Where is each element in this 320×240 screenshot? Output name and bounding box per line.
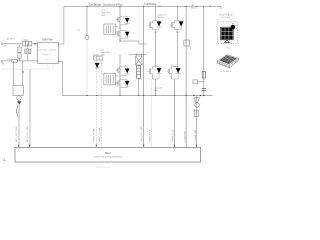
wire Y-cap stubs [18, 44, 20, 61]
wire grid sense to MCU [196, 96, 198, 148]
wire boost branch lower [86, 40, 88, 96]
svg-text:Bank: Bank [158, 17, 163, 19]
inductor L2 [202, 72, 205, 79]
wire GaN leg1 rail [119, 6, 121, 41]
node leg1 bus [155, 95, 156, 96]
wire neutral sense down [29, 69, 31, 147]
node T1 bus [138, 95, 139, 96]
svg-text:50Hz: 50Hz [3, 46, 7, 48]
inductor L1 [85, 35, 89, 39]
svg-text:x2: x2 [190, 40, 192, 42]
svg-text:F1 10A: F1 10A [6, 58, 13, 61]
diode D8 [152, 67, 161, 79]
wire boost branch [86, 6, 88, 35]
node jog start [119, 40, 120, 41]
gate driver U2 [104, 24, 116, 34]
capacitor CY2 [18, 53, 22, 58]
ground [3, 159, 6, 164]
wire T-LB leg2 drop [177, 6, 179, 20]
transistor Q5 [148, 21, 153, 30]
svg-text:VBUS_VOLT_SNS: VBUS_VOLT_SNS [141, 126, 143, 142]
node rail junction D [159, 6, 160, 7]
svg-text:CM choke + X2 caps: CM choke + X2 caps [39, 50, 57, 52]
wire T-LB leg2 mid [175, 30, 178, 67]
transistor Q7 [148, 67, 153, 79]
transistor Q1 [116, 17, 120, 23]
inductor T1 winding [137, 66, 141, 78]
node bus j2 [143, 95, 144, 96]
capacitor CX1 [25, 49, 27, 54]
wire EMI lower output drop [58, 62, 62, 96]
capacitor CX2 [28, 49, 30, 54]
diode D2 [120, 31, 130, 39]
wire fuse to EMI [17, 60, 37, 62]
transistor Q2 [116, 31, 120, 37]
pin arrow p2 [29, 145, 31, 148]
sensor box U4 [194, 110, 199, 117]
svg-text:GaN micro-inverter: GaN micro-inverter [95, 166, 111, 169]
wire rail right end drop [220, 6, 222, 9]
pin arrow p9 [196, 145, 198, 148]
wire EMI upper output riser [58, 6, 64, 44]
wire X-cap branch [27, 44, 29, 61]
svg-text:PV kit: PV kit [226, 47, 231, 50]
terminal AC line L [1, 43, 3, 45]
wire earth dashed [2, 68, 50, 70]
wire transformer top [129, 53, 148, 55]
node diamond joint [16, 96, 22, 101]
wire AC stub [198, 81, 204, 83]
node bus j5 [200, 95, 201, 96]
svg-text:PWM2_B_TLB: PWM2_B_TLB [173, 129, 175, 142]
arrow into EMI [34, 43, 36, 45]
gate driver U3 [104, 73, 116, 85]
svg-text:PV Rooftop kit: PV Rooftop kit [220, 70, 232, 73]
wire C1 pin [190, 46, 192, 50]
wire sense line to MCU x19 [13, 61, 22, 86]
svg-text:AC 230 V: AC 230 V [7, 38, 16, 41]
node transformer a [136, 54, 137, 55]
diode D4 [120, 80, 130, 88]
node leg2 to bus [119, 95, 120, 96]
wire leg2 bottom to MCU [174, 79, 176, 147]
diode D6 [152, 21, 161, 30]
svg-text:MCU: MCU [105, 153, 111, 155]
transformer T1 core [136, 54, 141, 56]
svg-text:GaN Bridge / Synchronous Rect.: GaN Bridge / Synchronous Rect. [89, 4, 124, 7]
pin arrow p7 [174, 145, 176, 148]
wire left sense down [18, 101, 20, 147]
node rail junction C [143, 6, 144, 7]
wire T-LB left rail [143, 6, 145, 147]
current sensor CT1 [195, 103, 200, 108]
wire PWM pair to MCU [96, 60, 101, 147]
node transformer b [141, 54, 142, 55]
wire L to connector [3, 43, 22, 45]
diode D9 [17, 101, 21, 104]
transistor Q4 [116, 80, 120, 86]
transformer TX aux box [13, 86, 24, 96]
wire top DC rail [64, 5, 221, 7]
node bus j1 [96, 95, 97, 96]
svg-text:Solar PV Array: Solar PV Array [219, 13, 232, 16]
svg-text:AC_L_VOLT_SNS: AC_L_VOLT_SNS [15, 126, 18, 142]
svg-text:EMI Filter: EMI Filter [43, 39, 53, 42]
transistor Q3 [116, 67, 120, 73]
EMI filter box U1 [38, 42, 59, 63]
svg-text:T-LB Bridge: T-LB Bridge [144, 3, 157, 6]
solar panel icon [221, 27, 234, 40]
svg-text:V_GRID_SNS: V_GRID_SNS [195, 129, 197, 141]
wire bridge out jog [120, 41, 147, 44]
wire gate sense to MCU [151, 79, 153, 147]
current sensor funnel [194, 98, 199, 103]
PV array dashed box [218, 22, 238, 44]
svg-text:2-stage LC: 2-stage LC [43, 53, 52, 56]
node rail junction G [209, 6, 210, 7]
current transformer arc [17, 106, 19, 118]
node rail junction B [119, 6, 120, 7]
diode D5 [95, 63, 99, 68]
node boost to bus [86, 95, 87, 96]
panel stand [224, 40, 230, 43]
arrow sense down [22, 71, 24, 74]
svg-text:I_GRID_SNS: I_GRID_SNS [184, 130, 186, 142]
connector J2 [94, 56, 103, 60]
MCU box U5 [15, 147, 201, 162]
transistor Q6 [170, 21, 175, 30]
svg-text:GaN: GaN [101, 15, 106, 17]
rooftop PV icon [217, 55, 239, 68]
wire leg1 bottom to bus [154, 79, 156, 96]
svg-text:Y caps: Y caps [44, 59, 50, 61]
node leg2 bus [174, 95, 175, 96]
node bus j6 [203, 95, 204, 96]
svg-text:PWM1_HI_GAN: PWM1_HI_GAN [93, 128, 96, 142]
svg-text:(DC Input): (DC Input) [222, 16, 231, 19]
diode D10 [171, 67, 180, 79]
node rail junction E [186, 6, 187, 7]
wire output filter line [203, 6, 205, 95]
wire capacitor line [185, 6, 187, 147]
fuse F1 [12, 59, 17, 62]
terminal earth [2, 63, 4, 65]
svg-text:GaN: GaN [101, 55, 106, 57]
wire N to fuse [3, 60, 12, 62]
node rail junction A [86, 6, 87, 7]
sun icon [231, 25, 236, 30]
svg-text:DC-DC: DC-DC [191, 7, 198, 9]
wire T-LB leg1 drop [154, 6, 156, 20]
capacitor C1 [184, 40, 189, 46]
pin arrow p1 [18, 145, 20, 148]
diode D3 [120, 67, 130, 76]
capacitor CY1 [18, 47, 22, 52]
node bus j4 [193, 95, 194, 96]
connector J3 [193, 80, 198, 84]
svg-text:PWM2_A_TLB: PWM2_A_TLB [149, 129, 152, 142]
wire GaN leg2 rail [119, 54, 121, 95]
pin arrow p5 [143, 145, 145, 148]
wire AC output bus [63, 95, 213, 97]
svg-text:J-Input: J-Input [22, 38, 29, 41]
diode D1 [120, 16, 130, 25]
wire T-LB leg1 mid [154, 30, 156, 67]
svg-text:Bank: Bank [154, 90, 159, 92]
svg-text:AC_N_VOLT_SNS: AC_N_VOLT_SNS [26, 126, 29, 142]
svg-text:C2000 DSP (TMS320F28379D): C2000 DSP (TMS320F28379D) [94, 156, 123, 158]
node rail junction F [196, 6, 197, 7]
svg-text:PWM1_LO_GAN: PWM1_LO_GAN [99, 127, 102, 141]
terminal AC line N [1, 60, 3, 62]
capacitor C2 [202, 89, 206, 91]
wire T1 to bus [138, 78, 140, 95]
pin arrow p3 [96, 145, 98, 148]
transistor Q8 [167, 67, 172, 79]
wire connector to EMI [32, 43, 38, 45]
wire EMI ground stubs dotted [47, 64, 53, 69]
node bus j3 [186, 95, 187, 96]
diode D7 [174, 21, 183, 30]
